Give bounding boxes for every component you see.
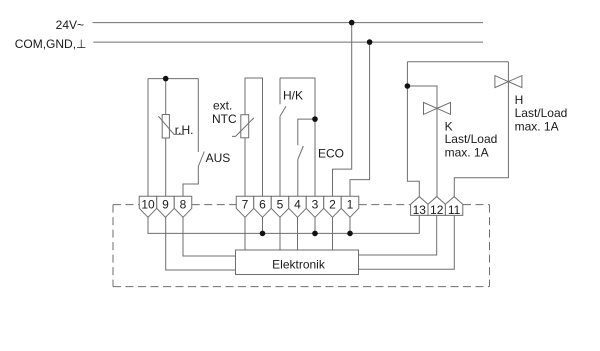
wire valve-H drop to terminal 11 [454,62,508,197]
svg-text:r.H.: r.H. [175,123,194,137]
wire below AUS switch to terminal 8 [183,167,198,197]
wire terminal 1 drop to bus [349,217,351,233]
Elektronik box [236,250,359,275]
svg-text:1: 1 [347,198,354,212]
wire terminal 9 to Elektronik left [166,217,236,270]
svg-text:Last/Load: Last/Load [445,132,498,146]
switch AUS blade [198,152,204,167]
node valve-K tap junction [405,83,411,89]
svg-text:max. 1A: max. 1A [515,120,559,134]
wire r.H. resistor bottom lead to terminal 9 [165,138,167,196]
svg-text:6: 6 [259,198,266,212]
wire terminal 5 to Elektronik [279,217,281,250]
svg-text:4: 4 [294,198,301,212]
wire ECO branch from node to switch [298,119,315,145]
terminal 8 [174,196,192,217]
node ECO tap junction [312,116,318,122]
svg-text:H: H [515,93,524,107]
valve H [495,76,509,88]
svg-text:COM,GND,⊥: COM,GND,⊥ [15,37,87,51]
terminal 4 [289,196,307,217]
wire GND tap to terminal 1 [350,42,370,196]
terminal 11 [445,197,462,216]
wire terminal 8 to Elektronik left [183,217,236,256]
svg-text:Elektronik: Elektronik [272,257,326,271]
wire r.H. loop left vertical (terminal 10 up) [147,79,149,197]
dashed enclosure [113,205,490,287]
wire COM,GND line [93,41,483,43]
wire terminal 2 to Elektronik [332,217,334,250]
terminal 7 [236,196,254,217]
wire below ECO switch to terminal 4 [297,159,299,196]
wire r.H. loop right vertical to switch [197,79,199,152]
wire below H/K switch to terminal 5 [279,116,281,196]
terminal 1 [341,196,359,217]
wire terminal 13 riser [407,62,419,197]
svg-text:11: 11 [448,203,461,217]
terminal 10 [139,196,157,217]
svg-text:12: 12 [430,203,444,217]
terminal 9 [157,196,175,217]
wire r.H. resistor top lead [165,79,167,115]
wire valve-K branch [407,86,437,197]
wire terminal 12 to Elektronik right [359,215,437,255]
switch ECO blade [298,146,304,159]
svg-text:13: 13 [413,203,427,217]
wire r.H. loop top horizontal [148,78,198,80]
switch H/K blade [280,106,286,116]
wire NTC loop: terminal 7 up, across, down to terminal 6 [245,78,263,196]
svg-text:NTC: NTC [212,112,237,126]
resistor r.H. [162,115,169,139]
svg-text:9: 9 [162,198,169,212]
svg-text:2: 2 [329,198,336,212]
svg-text:ECO: ECO [318,147,344,161]
svg-text:5: 5 [277,198,284,212]
svg-text:10: 10 [141,198,155,212]
wire terminal 11 to Elektronik right [359,215,455,269]
terminal 2 [324,196,342,217]
node bus terminal 1 junction [347,231,353,237]
node r.H. top junction [163,76,169,82]
svg-text:AUS: AUS [206,151,231,165]
wire GND bus under terminals [148,215,419,233]
svg-text:8: 8 [180,198,187,212]
wire terminal 7 to Elektronik [244,217,246,250]
node bus terminal 3 junction [312,231,318,237]
node GND/terminal-1 junction [367,39,373,45]
svg-text:ext.: ext. [213,99,232,113]
wire valve-H top feed [407,61,508,63]
valve K [424,102,438,114]
svg-text:7: 7 [242,198,249,212]
wire terminal 3 drop to bus [314,217,316,233]
terminal 3 [306,196,324,217]
node bus terminal 6 junction [260,231,266,237]
svg-text:Last/Load: Last/Load [515,106,568,120]
wire 24V tap to terminal 2 [333,23,352,197]
terminal 6 [254,196,272,217]
terminal 12 [428,197,445,216]
wire H/K loop: terminal 5 up, across, down to terminal 3 [279,78,281,104]
svg-text:24V~: 24V~ [56,18,84,32]
svg-text:H/K: H/K [283,89,303,103]
node 24V/terminal-2 junction [349,20,355,26]
terminal 13 [411,197,428,216]
svg-text:max. 1A: max. 1A [445,146,489,160]
wire terminal 6 drop to bus [262,217,264,233]
svg-text:3: 3 [312,198,319,212]
wire terminal 4 to Elektronik [297,217,299,250]
wire 24V supply line [93,22,484,24]
terminal 5 [271,196,289,217]
thermistor ext. NTC [241,115,249,138]
